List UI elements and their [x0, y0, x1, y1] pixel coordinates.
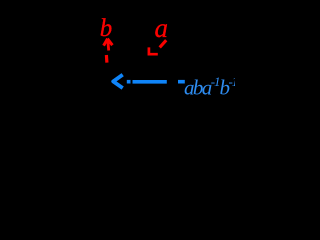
svg-text:a: a: [155, 13, 169, 43]
svg-text:aba-1b-1: aba-1b-1: [184, 74, 235, 100]
red down-left arrowhead: [148, 47, 158, 55]
blue arrow short stem: [127, 80, 131, 84]
red up-arrow stem: [106, 41, 110, 51]
blue arrow end dash: [178, 80, 185, 84]
red dashed arrow pointing up: arrowhead: [104, 39, 113, 63]
red dashed arrow pointing down-left: dash: [148, 40, 167, 55]
blue dashed arrow pointing left: arrowhead: [113, 75, 185, 88]
red up-arrow dash: [105, 55, 109, 63]
blue arrow long dash: [133, 80, 167, 84]
svg-text:b: b: [100, 15, 113, 42]
